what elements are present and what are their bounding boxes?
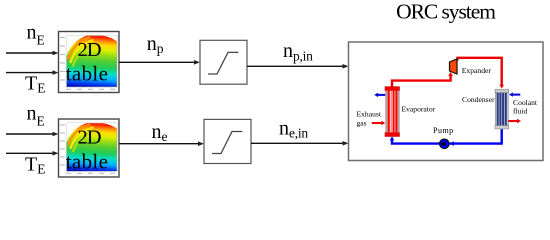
exhaust gas inlet arrow (red) [372,121,386,125]
svg-text:gas: gas [357,119,367,128]
svg-text:Pump: Pump [433,126,454,135]
label n_p,in [283,40,313,63]
svg-text:TE: TE [25,72,45,95]
label ORC system title [396,0,496,23]
svg-text:Coolant: Coolant [513,98,538,107]
evaporator E1 [385,87,400,137]
label T_E top [25,72,45,95]
expander X1 [450,59,458,74]
label n_E bottom [27,103,45,129]
label n_p [147,33,164,56]
label T_E bottom [25,153,45,176]
pump P1 [440,139,450,149]
svg-text:2D: 2D [77,127,100,149]
ORC system box [349,42,544,161]
svg-text:nE: nE [27,103,45,129]
svg-text:ne: ne [152,121,168,144]
svg-text:fluid: fluid [513,107,528,116]
coolant outlet arrow (red) [508,119,521,123]
2D table block U2 [59,119,120,177]
label Exhaust gas [357,109,382,127]
wire table U1 to saturation S1 [119,60,200,65]
svg-text:table: table [66,62,109,86]
label n_E top [27,22,45,48]
svg-text:ORC system: ORC system [396,0,496,23]
wire saturation S2 to ORC box [251,141,349,146]
label Coolant fluid [513,98,538,116]
label Evaporator [402,104,436,113]
saturation block S1 [200,40,247,84]
wire T_E input to table U1 [6,70,59,75]
label Expander [462,66,492,75]
red pipe evaporator to expander [392,72,453,88]
saturation block S2 [204,119,251,163]
svg-text:Condenser: Condenser [462,95,495,104]
label n_e,in [279,117,308,140]
svg-text:ne,in: ne,in [279,117,308,140]
wire n_E input to table U2 [6,132,59,137]
2D table block U1 [59,32,120,93]
condenser C1 [495,89,509,129]
svg-text:Evaporator: Evaporator [402,104,436,113]
exhaust gas outlet arrow (blue) [374,93,385,97]
svg-text:nE: nE [27,22,45,48]
svg-text:np,in: np,in [283,40,313,63]
coolant inlet arrow (blue) [509,92,520,96]
wire T_E input to table U2 [6,151,59,156]
svg-text:table: table [66,150,109,174]
svg-text:TE: TE [25,153,45,176]
svg-text:Expander: Expander [462,66,492,75]
blue pipe condenser to pump to evaporator [390,129,502,146]
red pipe expander to condenser [458,58,505,89]
wire saturation S1 to ORC box [247,64,349,69]
label Condenser [462,95,495,104]
wire table U2 to saturation S2 [119,141,204,146]
svg-text:np: np [147,33,164,56]
label n_e [152,121,168,144]
label Pump [433,126,454,135]
svg-text:2D: 2D [77,39,100,61]
svg-text:Exhaust: Exhaust [357,109,382,118]
wire n_E input to table U1 [6,51,59,56]
